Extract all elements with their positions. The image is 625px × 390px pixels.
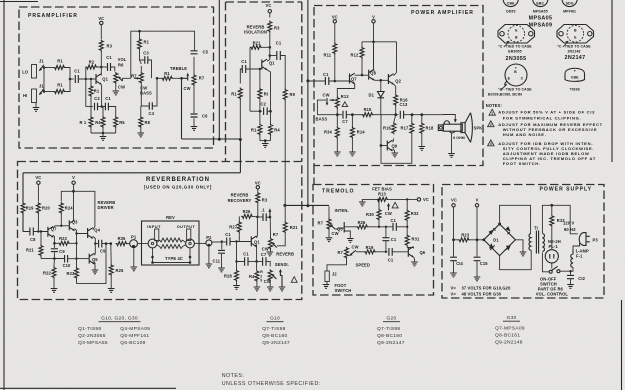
wire R31 leads [406,227,408,248]
transistor Q1 preamp [96,74,102,85]
resistor R3 [99,40,103,52]
node R32 top junction [406,198,408,200]
node reverb spring upper [160,238,183,242]
wire vertical bus from top edge to power amp input [307,0,309,206]
resistor R12 [360,47,364,59]
node V terminal reverberation [72,181,75,184]
capacitor C2 [264,107,268,115]
wire input network right side [66,68,71,92]
speaker SPK [443,124,462,131]
wire BASS wiper arrow [134,77,137,79]
resistor R1 input lower [54,90,66,94]
wire Q7 collector to base line [53,226,55,229]
wire R20 bottom [37,214,39,232]
ground bridge [520,252,527,256]
capacitor C1 recovery input [227,238,230,246]
wire Q5 base lead [77,258,90,260]
capacitor C9 electrolytic driver [51,249,58,252]
wire vertical bus from top edge to preamp output node [218,0,220,140]
wire recovery output to tremolo run [285,204,329,206]
potentiometer R7 reverb [269,238,273,250]
wire Q2 collector lead [394,73,397,76]
wire C1 vert leads [385,227,387,252]
capacitor C3 [145,56,148,64]
transistor Q4 [88,228,94,239]
ground Q5 [92,270,99,274]
wire page top-left edge [0,1,38,3]
capacitor C4 [149,102,152,110]
capacitor C12 [567,275,574,278]
warning triangle note2 reverb [291,277,297,283]
wire page bottom-left edge [0,387,176,389]
node C8 base junction [40,230,42,232]
wire J2 ground lead [326,282,328,285]
wire V rail right branch to Q4 [74,191,95,226]
node bias ground junction [102,132,105,135]
wire bottom return rail [77,244,107,284]
wire page fold line right top [611,0,613,162]
wire isolation ground rail [260,140,271,142]
node R17 junction [411,113,414,116]
wire Q4 collector lead [93,227,95,230]
wire reverb base line [55,225,69,227]
capacitor C11 [218,250,225,253]
wire R4 leads [256,270,258,287]
wire R16 to line [395,106,397,115]
node C9 bottom junction [53,257,56,260]
ground inten pot [326,238,333,242]
resistor R3 recovery [256,192,260,204]
wire Q5 collector to C9 [93,244,96,256]
capacitor C1 input coupling [75,75,78,83]
wire C14 leads [453,240,455,273]
node junction preamp-out / reverb feed [239,138,242,141]
node base bias junction [90,78,92,80]
wire sens pot bottom ground [269,281,271,286]
wire preamp output horizontal run [182,138,241,140]
wire C8 leads [23,230,48,232]
wire C13 right segment [404,114,444,116]
node middle column right dashed border [301,2,303,161]
wire R16 lower top [394,115,396,123]
node note triangle 3 [488,140,494,146]
ground bias network [100,137,107,141]
resistor R16 upper [394,94,398,106]
node tank sleeve junction 3 [189,256,192,259]
wire bridge top to secondary [500,205,531,234]
wire R23 leads [54,242,76,244]
ground sens branch [279,287,286,291]
wire R4 leads [270,111,272,140]
capacitor C1 bias [105,103,108,111]
wire bias ground rail [91,132,116,134]
node tank input jack [155,229,159,241]
wire C1 to Q6 base [392,251,408,253]
node VC terminal power supply [452,204,455,207]
wire R3 to collector [269,33,271,59]
resistor R24 [59,202,63,214]
ground P1 [131,267,138,271]
wire R26 to C1 line [368,226,392,228]
wire R23 leads [454,239,484,241]
wire R22 leads [53,259,55,289]
wire jack tips vertical tie [43,68,45,92]
capacitor C7 bass [343,111,346,119]
capacitor C15 [474,257,481,261]
node Q4 emitter junction [94,242,96,244]
transistor Q7 power amp [350,73,356,84]
resistor R3 isolation [268,21,272,33]
wire VOL wiper arrow [119,78,123,82]
ground Q6 [411,262,418,266]
node bridge top junction [498,223,501,226]
resistor R1 mid tone [161,76,173,80]
wire C15 leads [476,240,478,277]
wire R19 right to C1 [376,251,387,253]
wire feedback to C2 node [250,110,262,112]
wire R5 bottom [115,112,117,133]
node note triangle 1 [489,109,495,115]
wire bias gnd stem [102,133,104,136]
node TO-3 package 2N3055 [498,25,535,63]
node input network output [69,78,72,81]
node V rail junction [476,238,479,241]
node C12 junction [569,270,571,272]
potentiometer R7 BASS [139,72,143,84]
wire R3 to Q1 collector node [100,52,102,68]
node P1 plug [130,240,138,248]
node R11 base junction [334,80,337,83]
node VC supply terminal preamp [100,21,103,24]
transistor Q1 isolation [262,59,268,70]
wire VOL pot ground lead [115,84,117,91]
wire R2 leads [86,67,100,79]
potentiometer R6 VOL [114,72,118,84]
node bridge rectifier D1 [484,224,516,256]
node R28 junction [235,240,237,242]
wire R13 bottom to line [336,109,338,115]
resistor R1 bias under base [89,85,93,97]
transformer T1 [529,226,544,254]
wire C1 to Q1 base [78,78,96,80]
node base bias junction [259,68,261,70]
wire R13 top to Q7 emitter [337,84,354,97]
ground Q9 [392,153,399,157]
ground R8 [138,133,145,137]
capacitor C1 tremolo 2 [382,238,389,241]
wire C2 right to emitter column [267,110,270,112]
wire Q1 collector lead [256,217,259,238]
wire bass wiper arrow [330,99,334,101]
node R30 bottom junction [378,226,380,228]
wire Q4 emitter to C9 [93,236,96,243]
capacitor C5 [191,51,198,54]
transistor Q6 [408,247,414,258]
ground J2 [323,285,330,289]
wire fuse to plug [573,243,580,250]
node collector output junction [269,54,272,57]
wire fet gate lead [335,228,344,229]
wire VC to R11 [334,23,336,43]
resistor R1 tone [138,38,142,50]
node reverb spring lower [160,245,183,249]
resistor R35 [116,242,128,246]
wire C9 leads [53,243,55,258]
wire Q3 collector to V [74,220,75,223]
wire V rail horizontal [362,41,397,43]
node note triangle 2 [488,121,494,127]
wire R1 lower leads [90,107,92,134]
wire R1 to treble [157,77,182,79]
resistor R23 lower [75,267,79,279]
wire R1 tone leads [139,31,141,55]
wire C1 output to R9 column [280,56,285,89]
wire R32 leads [406,199,408,226]
node V terminal power amp [372,20,375,23]
node emitter junction [269,110,272,113]
resistor R5 [114,116,118,128]
resistor R13 fet bias [376,197,388,201]
node middle column top dashed border [226,1,303,3]
node VC terminal reverb isolation [268,10,271,13]
node R32 bottom junction [406,226,408,228]
wire R33 leads [551,205,553,249]
wire bridge right to ground [515,240,523,252]
wire R23 lower leads [76,243,78,283]
wire R17 leads loop to Q9 base [381,115,412,164]
wire R18 leads [421,115,423,146]
node jack tie lower [43,90,46,93]
node reverb pot top junction [269,216,272,219]
wire tank to P2 [195,242,206,244]
wire D1 to output line [380,98,382,115]
node VC rail junction [452,238,455,241]
ground R34 [334,152,341,156]
wire Q7 emitter lead [53,235,54,243]
resistor R4 recovery [255,270,259,282]
wire reverb feed run to left rail [23,172,240,174]
wire D1 column below line [380,115,382,146]
wire R15 to D1 column and C13 [374,114,399,116]
wire C1 low leads [237,260,257,262]
wire ground lead lower jack [35,103,37,108]
ground VOL pot [113,91,120,95]
ground R14 [349,152,356,156]
node junction preamp-out / top bus [218,138,221,141]
node tone rail junction R1 [138,30,141,33]
ground R4 [254,287,261,291]
node TO-92 package MPF161 [562,0,577,13]
ground R22 [51,289,58,293]
ground C11 [218,268,225,272]
node R33 top junction [550,204,553,207]
node R24 bottom junction [60,225,62,227]
wire lamp bottom lead [551,263,553,269]
node R18 junction [420,113,423,116]
capacitor C13 [400,111,403,119]
wire collector node to C1 [101,66,107,68]
wire R1 load bottom to output wire [239,100,241,140]
wire bias column left [85,79,87,107]
node R14 junction [351,113,354,116]
wire P2 to C1 [212,241,227,243]
resistor R15 [362,113,374,117]
wire Q1 emitter lead [101,85,103,107]
wire VOL wiper to bass rail [123,78,131,81]
node junction bus / tremolo feed [306,204,309,207]
wire P2 ground lead [208,247,210,264]
wire to C1 input cap [70,78,74,80]
wire R35 to P1 [128,243,130,245]
wire sens arrow branch [280,272,282,287]
wire Q3 emitter to Q4 base [77,234,88,244]
node C1 lower junction [385,251,387,253]
wire pot top lead [269,217,271,238]
node VC terminal reverberation [37,181,40,184]
resistor R1 input upper [54,66,66,70]
wire C1 to Q7 base [329,80,350,82]
transistor Q1 recovery [251,236,256,247]
node recovery collector junction [256,216,259,219]
wire D1 drop [380,80,382,91]
wire bridge bottom to secondary low [500,250,532,270]
wire C11 leads [221,242,223,268]
node C2 left junction [259,110,262,113]
wire to R1 upper [44,67,54,69]
wire Q6 emitter ground [413,257,416,261]
wire C1 to VOL pot [111,67,115,72]
wire Q1 collector lead [100,67,102,76]
ground reverb pot [267,252,274,256]
wire Q8 collector to V rail [373,42,375,72]
wire C3 left lead [140,56,145,61]
resistor R19 [21,202,25,214]
node emitter C junction [255,260,258,263]
wire bass pot top lead [140,60,142,72]
wire R25 leads [110,244,112,288]
resistor R33 [550,215,554,227]
node V rail junction [72,190,75,193]
wire primary bottom to switch [542,253,549,272]
ground C6 [191,127,198,131]
wire reverb pot wiper [273,244,277,248]
wire Q9 emitter ground [393,149,395,153]
transistor Q3 reverb [69,220,75,231]
node VC terminal tremolo [417,198,420,201]
resistor R4 isolation [269,124,273,136]
wire R13 left ground lead [362,199,376,201]
wire V drop [476,207,478,240]
ground P2 [206,264,213,268]
wire treble output drop [181,78,183,139]
wire R27 leads [238,216,240,241]
node R25 top junction [110,242,113,245]
capacitor C1 tremolo 1 [393,223,396,231]
wire R21 left drop to bias node [250,47,270,111]
node VC terminal recovery [256,186,259,189]
wire Q1 emitter lead [256,245,258,270]
wire R28 leads [236,242,238,286]
wire Q9 base lead [381,145,387,147]
potentiometer R13 bass feedback [335,97,339,109]
ground C15 [474,277,481,281]
wire input cap to Q1 base [246,68,262,70]
node Q9 base junction [380,144,383,147]
wire R12 drop [361,42,363,47]
wire R1 lower leads [259,111,261,140]
resistor R4 [101,116,105,128]
ground C12 [567,285,574,289]
wire Q2 collector drop [396,42,398,73]
wire V to rail [373,23,375,67]
node R20 base junction [37,230,39,232]
wire R11 to base line [334,55,336,82]
resistor R26 tremolo [356,225,368,229]
wire fet source ground [344,231,350,238]
node REVERBERATION section box [18,162,302,300]
node middle column left dashed border [225,2,227,161]
wire C3 right lead drop [148,60,152,78]
resistor R34 [335,127,339,139]
wire R21 leads [40,232,42,259]
node bridge left junction [482,238,485,241]
ground R18 [419,147,426,151]
node speaker plug [438,125,443,131]
capacitor C14 [450,257,457,261]
ground isolation stage [262,144,269,148]
node junction recovery output [283,204,286,207]
node isolation ground junction [264,139,267,142]
wire VC drop [453,207,455,240]
wire R1 bias leads [90,79,92,107]
node VC terminal power amp [333,20,336,23]
wire treble pot bottom to C6 [193,86,195,113]
capacitor C6 [191,114,198,117]
wire tremolo input drop [328,206,330,218]
node Q3 emitter drop junction [75,242,77,244]
wire C1 right to R5 column [108,107,115,113]
resistor R14 [350,127,354,139]
warning triangle note1 power amp [342,102,348,107]
node R2 bias drop junction [85,78,87,80]
node POWER AMPLIFIER section box [314,6,483,166]
wire gnd stem [264,141,266,143]
wire Q7 collector to Q8 base [355,74,369,76]
resistor R11 [333,43,337,55]
node Q1 collector junction [100,66,103,69]
node POWER SUPPLY section box [442,185,604,299]
node REV tank box [142,221,200,265]
wire collector to C1 [270,55,277,57]
wire Q6 collector to R31 [407,248,413,249]
wire V rail center drop to Q3 [73,191,75,219]
wire fet drain lead [344,226,356,228]
node tone mid junction [156,77,159,80]
node Q7 emitter junction [53,242,56,245]
ground sens pot [267,287,274,291]
wire R8 leads [140,106,142,133]
wire R3 bottom to junction [257,204,259,217]
resistor R21 isolation feedback [250,45,262,49]
node C10 right junction [75,257,77,259]
wire R30 leads [378,199,380,226]
wire sens pot wiper [273,275,277,279]
wire R24 bottom to base line [60,214,62,226]
wire VC to R3 [100,25,102,39]
wire R4 leads [102,107,104,134]
wire VC to R3 [257,189,259,192]
potentiometer R7 intensity [327,218,331,230]
